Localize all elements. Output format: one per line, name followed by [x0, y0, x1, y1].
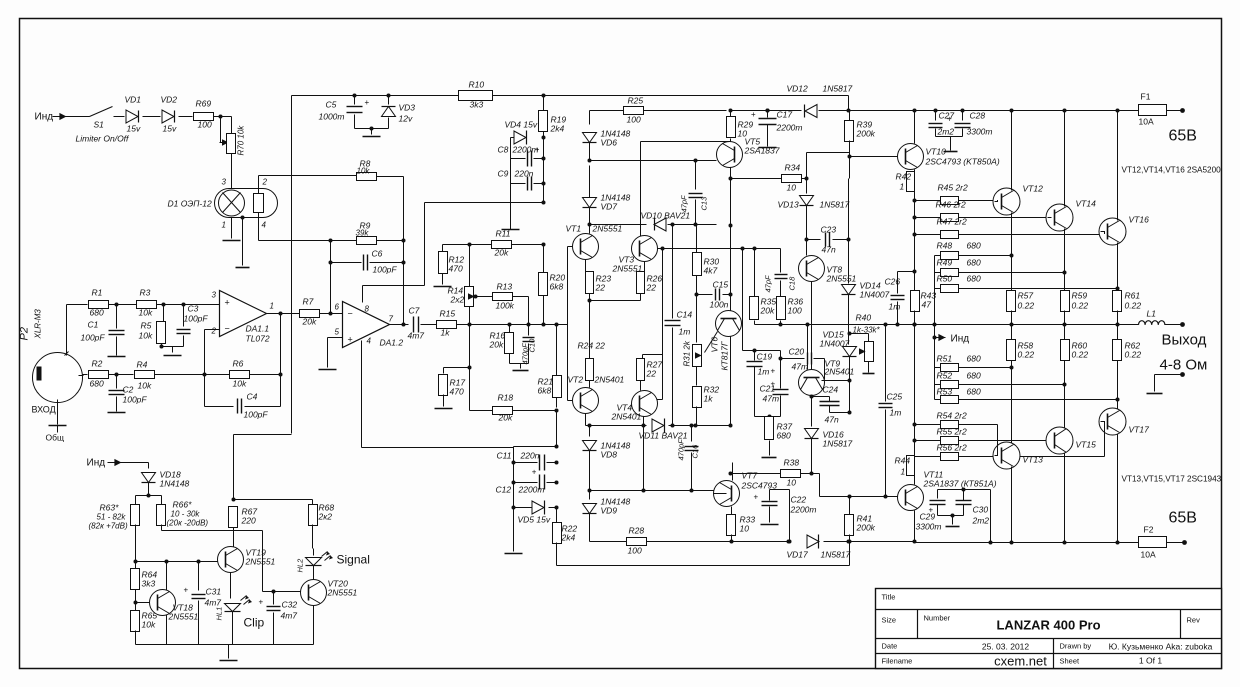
- svg-text:C26: C26: [885, 277, 901, 287]
- svg-text:47n: 47n: [822, 245, 836, 255]
- resistor R9 39k: [357, 237, 377, 245]
- wire VT5 base: [694, 159, 698, 163]
- svg-text:2: 2: [262, 178, 268, 187]
- wire VT7 base line: [590, 490, 714, 492]
- svg-text:−: −: [348, 309, 353, 319]
- svg-text:R25: R25: [628, 96, 644, 106]
- svg-text:C11: C11: [497, 451, 512, 461]
- svg-text:2200m: 2200m: [776, 123, 803, 133]
- wire output: [267, 313, 300, 315]
- svg-text:4: 4: [262, 221, 267, 230]
- svg-text:3300m: 3300m: [967, 127, 993, 137]
- svg-text:VT6: VT6: [710, 337, 720, 353]
- resistor R10 3k3: [459, 91, 493, 101]
- wire pin4 down: [258, 213, 260, 241]
- transistor VT4 2N5401: [632, 391, 658, 417]
- svg-text:DA1.2: DA1.2: [380, 338, 404, 348]
- svg-text:4k7: 4k7: [704, 266, 718, 276]
- wire collectors bottom bank: [1011, 467, 1013, 543]
- svg-text:1000m: 1000m: [319, 112, 345, 122]
- ground: [863, 373, 875, 375]
- svg-text:0.22: 0.22: [1125, 301, 1142, 311]
- svg-text:100: 100: [788, 306, 802, 316]
- svg-text:D1 ОЭП-12: D1 ОЭП-12: [168, 199, 212, 209]
- svg-text:0.22: 0.22: [1018, 350, 1035, 360]
- svg-text:Инд: Инд: [35, 112, 54, 123]
- wire main +supply rail: [292, 95, 544, 97]
- svg-text:20k: 20k: [760, 306, 775, 316]
- svg-text:1 Of 1: 1 Of 1: [1139, 656, 1162, 666]
- resistor R6 10k: [230, 371, 250, 379]
- wire output pin7: [390, 324, 409, 326]
- wire to lamp: [231, 154, 233, 189]
- svg-text:2N5401: 2N5401: [611, 412, 642, 422]
- svg-text:1k: 1k: [704, 394, 714, 404]
- svg-text:6k8: 6k8: [550, 282, 564, 292]
- wire VD15 node down: [849, 381, 851, 413]
- svg-text:C4: C4: [247, 392, 258, 402]
- svg-text:3k3: 3k3: [470, 100, 484, 110]
- svg-text:C9: C9: [498, 169, 509, 179]
- svg-text:cxem.net: cxem.net: [994, 654, 1047, 669]
- capacitor C25 1m: [885, 325, 887, 402]
- svg-text:1N4007: 1N4007: [820, 339, 850, 349]
- wire VT20 emitter: [313, 606, 315, 645]
- diode VD10 BAV21: [654, 218, 666, 231]
- svg-text:VD4 15v: VD4 15v: [505, 120, 538, 130]
- wire VT3 collector: [641, 141, 731, 143]
- svg-text:2N5401: 2N5401: [824, 367, 855, 377]
- svg-text:200k: 200k: [856, 523, 876, 533]
- svg-text:10k: 10k: [138, 381, 152, 391]
- capacitor C9 220n: [527, 177, 529, 191]
- svg-text:C31: C31: [206, 587, 222, 597]
- svg-text:1: 1: [270, 302, 274, 311]
- wire pin to R2: [83, 374, 88, 376]
- svg-text:R6: R6: [233, 359, 244, 369]
- svg-text:R49: R49: [937, 258, 953, 268]
- resistor R1 680: [89, 301, 109, 309]
- wire VT19 base line: [136, 561, 218, 563]
- svg-text:470: 470: [450, 387, 464, 397]
- diode VD16 1N5817: [811, 396, 813, 427]
- wire bottom indicator rail: [136, 644, 314, 646]
- capacitor C6 100pF: [330, 241, 332, 263]
- svg-text:C23: C23: [821, 225, 837, 235]
- transistor VT15: [1046, 427, 1073, 454]
- capacitor C5 1000m: [353, 94, 357, 98]
- svg-text:10: 10: [787, 183, 797, 193]
- svg-text:C28: C28: [970, 111, 986, 121]
- zener VD3 12v: [387, 94, 391, 98]
- transistor VT9 2N5401: [807, 325, 809, 370]
- wire VT4 emitter down: [643, 417, 645, 426]
- svg-text:10k: 10k: [142, 620, 156, 630]
- wire pin8 supply: [362, 286, 364, 303]
- svg-text:Rev: Rev: [1187, 616, 1201, 625]
- svg-text:0.22: 0.22: [1072, 350, 1089, 360]
- svg-text:HL2: HL2: [296, 558, 305, 573]
- wire R21 column: [556, 325, 558, 376]
- transistor VT7 2SC4793: [714, 481, 740, 507]
- resistor R69 100: [194, 113, 214, 121]
- svg-text:F1: F1: [1141, 92, 1151, 102]
- svg-text:2SC4793 (KT850A): 2SC4793 (KT850A): [925, 157, 1000, 167]
- resistor R26 22: [644, 262, 646, 272]
- svg-text:VT14: VT14: [1076, 199, 1097, 209]
- svg-text:VT15: VT15: [1076, 440, 1097, 450]
- svg-text:10A: 10A: [1141, 550, 1156, 560]
- svg-text:R51: R51: [937, 354, 953, 364]
- transistor VT18 2N5551: [150, 590, 176, 616]
- resistor R18 20k: [470, 410, 493, 412]
- svg-text:220: 220: [241, 516, 256, 526]
- capacitor C24 47n: [812, 396, 830, 398]
- svg-text:R34: R34: [785, 163, 801, 173]
- svg-text:R69: R69: [196, 99, 212, 109]
- svg-text:100pF: 100pF: [184, 314, 209, 324]
- svg-text:R55 2r2: R55 2r2: [937, 427, 968, 437]
- resistor R41 200k: [849, 497, 851, 515]
- switch S1: [90, 107, 113, 117]
- svg-text:R46 2r2: R46 2r2: [936, 200, 967, 210]
- resistor R38 10: [729, 472, 733, 476]
- svg-text:100n: 100n: [710, 300, 729, 310]
- svg-text:R1: R1: [92, 288, 103, 298]
- svg-text:2N5551: 2N5551: [245, 557, 276, 567]
- wire: [143, 116, 161, 118]
- capacitor C30 2m2: [956, 500, 972, 502]
- capacitor C32 4m7: [267, 606, 281, 608]
- ground: [759, 147, 777, 149]
- svg-text:1N5817: 1N5817: [820, 200, 850, 210]
- svg-text:R45 2r2: R45 2r2: [938, 183, 969, 193]
- resistor R35 20k: [754, 249, 756, 298]
- capacitor C14 1m: [665, 320, 681, 322]
- transistor VT20 2N5551: [301, 580, 327, 606]
- resistor R30 4k7: [696, 225, 698, 253]
- svg-text:680: 680: [967, 258, 981, 268]
- svg-text:0.22: 0.22: [1125, 350, 1142, 360]
- svg-text:R3: R3: [140, 288, 151, 298]
- emitter resistors R57 R59 R61 0.22: [1007, 291, 1016, 312]
- svg-text:220n: 220n: [514, 169, 534, 179]
- wire VT7 collector: [732, 463, 734, 481]
- svg-text:680: 680: [967, 371, 981, 381]
- svg-text:VD13: VD13: [778, 200, 800, 210]
- svg-text:6k8: 6k8: [538, 386, 552, 396]
- svg-text:680: 680: [967, 354, 981, 364]
- svg-text:100pF: 100pF: [81, 333, 106, 343]
- svg-text:22: 22: [595, 283, 606, 293]
- svg-text:3: 3: [212, 291, 217, 300]
- svg-text:12v: 12v: [399, 114, 413, 124]
- diode VD11 BAV21: [652, 419, 664, 432]
- resistor R63 51-82k: [136, 495, 149, 497]
- svg-text:R44: R44: [895, 456, 911, 466]
- wire VT10 base: [849, 111, 851, 121]
- zener VD2: [162, 110, 174, 123]
- svg-text:2k4: 2k4: [550, 124, 565, 134]
- svg-text:Signal: Signal: [337, 553, 370, 567]
- base jogs lower bank: [995, 425, 998, 456]
- svg-text:C18: C18: [788, 276, 797, 291]
- wire: [67, 116, 90, 118]
- resistor R36 100: [777, 297, 786, 320]
- svg-text:VD17: VD17: [787, 550, 809, 560]
- ground: [762, 457, 777, 459]
- wire VT11 collector to rail: [914, 511, 916, 542]
- svg-text:+: +: [259, 597, 264, 606]
- transistor VT16: [1099, 218, 1126, 245]
- svg-text:R18: R18: [498, 393, 514, 403]
- svg-text:2200m: 2200m: [512, 145, 539, 155]
- svg-text:R4: R4: [137, 360, 148, 370]
- capacitor C16 470pF: [691, 426, 693, 442]
- emitter resistors R58 R60 R62 0.22: [1011, 325, 1013, 340]
- svg-text:10: 10: [787, 478, 797, 488]
- svg-text:22: 22: [646, 283, 657, 293]
- svg-text:Title: Title: [882, 593, 896, 602]
- svg-text:S1: S1: [94, 120, 105, 130]
- ground: [371, 129, 373, 135]
- opto element D1 ОЭП-12: [215, 189, 278, 218]
- ground: [435, 408, 453, 410]
- wire: [403, 177, 405, 325]
- svg-text:R61: R61: [1125, 291, 1141, 301]
- svg-text:2: 2: [211, 327, 217, 336]
- wire VT18 emitter: [166, 615, 168, 645]
- svg-text:2m2: 2m2: [937, 127, 955, 137]
- ground: [108, 412, 126, 414]
- svg-text:C5: C5: [326, 100, 337, 110]
- svg-text:C24: C24: [823, 385, 839, 395]
- wire: [179, 116, 193, 118]
- svg-text:Drawn by: Drawn by: [1060, 642, 1092, 651]
- svg-text:1: 1: [900, 182, 905, 192]
- wire bottom rail right: [915, 542, 1139, 544]
- svg-text:2x2: 2x2: [450, 295, 465, 305]
- potentiometer R70 10k: [231, 117, 233, 134]
- svg-text:VD7: VD7: [601, 202, 618, 212]
- resistor R43 47: [914, 235, 916, 291]
- svg-text:+: +: [365, 98, 370, 107]
- svg-text:ВХОД: ВХОД: [32, 405, 56, 415]
- node Инд output sense: [934, 289, 936, 325]
- capacitor C10 470pF: [528, 325, 530, 336]
- diode VD11 BAV21 line: [586, 425, 647, 427]
- svg-text:100pF: 100pF: [373, 265, 398, 275]
- transistor VT1 2N5551: [573, 234, 599, 260]
- diode VD18 1N4148: [148, 463, 150, 469]
- svg-text:680: 680: [967, 241, 981, 251]
- svg-text:R24 22: R24 22: [578, 341, 606, 351]
- wire bottom main rail: [732, 541, 789, 543]
- svg-text:C19: C19: [757, 352, 773, 362]
- resistor R12 470: [442, 245, 444, 252]
- wire VT9 emitter: [811, 396, 813, 397]
- svg-text:22: 22: [646, 369, 657, 379]
- svg-text:470: 470: [449, 264, 463, 274]
- capacitor C17 2200m: [766, 109, 770, 113]
- svg-text:10k: 10k: [139, 308, 153, 318]
- zener VD4 15v: [514, 131, 526, 144]
- svg-text:1: 1: [901, 467, 906, 477]
- resistor R68 2k2: [234, 499, 313, 501]
- capacitor C23 47n: [807, 239, 821, 241]
- svg-text:680: 680: [90, 379, 104, 389]
- zener VD5 15v: [555, 506, 559, 510]
- resistor R17 470: [444, 367, 470, 369]
- capacitor C29 3300m: [937, 490, 939, 499]
- svg-text:C13: C13: [700, 196, 709, 211]
- wire base tie VT1-VT2: [567, 247, 569, 401]
- resistor R67 220: [233, 435, 235, 500]
- resistor R33 10: [731, 507, 733, 515]
- transistor VT17: [1099, 408, 1126, 435]
- transistor VT6 КТ817Г: [716, 311, 742, 337]
- svg-text:TL072: TL072: [246, 334, 270, 344]
- svg-text:R57: R57: [1018, 291, 1034, 301]
- wire emitter columns top bank: [1011, 213, 1013, 291]
- ground: [513, 370, 529, 372]
- svg-text:10k: 10k: [233, 379, 247, 389]
- wire C30 leg to rail: [964, 489, 991, 491]
- wire R39 column lower: [848, 179, 850, 240]
- svg-text:25. 03. 2012: 25. 03. 2012: [982, 642, 1030, 652]
- wire: [291, 96, 293, 434]
- svg-text:1N4148: 1N4148: [160, 479, 190, 489]
- svg-text:Ю. Кузьменко Aka: zuboka: Ю. Кузьменко Aka: zuboka: [1109, 642, 1213, 652]
- svg-text:R63*: R63*: [100, 503, 120, 513]
- svg-text:C1: C1: [88, 320, 99, 330]
- svg-text:220n: 220n: [520, 451, 540, 461]
- svg-text:Date: Date: [882, 642, 898, 651]
- svg-text:R13: R13: [497, 282, 513, 292]
- resistor R29 10: [730, 111, 732, 117]
- svg-text:VD11 BAV21: VD11 BAV21: [639, 431, 688, 441]
- svg-text:VD2: VD2: [161, 95, 178, 105]
- svg-text:R42: R42: [896, 172, 912, 182]
- svg-text:R50: R50: [937, 274, 953, 284]
- svg-text:1k: 1k: [441, 328, 451, 338]
- svg-text:10: 10: [740, 524, 750, 534]
- svg-text:+: +: [771, 367, 776, 376]
- svg-text:0.22: 0.22: [1072, 301, 1089, 311]
- svg-text:47: 47: [922, 300, 932, 310]
- svg-text:2N5551: 2N5551: [826, 274, 857, 284]
- svg-text:DA1.1: DA1.1: [246, 324, 270, 334]
- transistor VT2 2N5401: [573, 388, 599, 414]
- resistor R2 680: [89, 371, 109, 379]
- svg-text:10: 10: [738, 129, 748, 139]
- diode VD15 1N4007: [843, 347, 857, 357]
- capacitor C11 220n: [555, 461, 559, 465]
- svg-text:Filename: Filename: [882, 657, 913, 666]
- wire collectors up: [1011, 111, 1013, 191]
- op-amp DA1.2: [343, 302, 390, 348]
- capacitor C26 1m: [898, 271, 915, 273]
- base jogs upper bank: [995, 200, 998, 202]
- svg-text:15v: 15v: [127, 124, 141, 134]
- svg-text:65В: 65В: [1169, 128, 1197, 145]
- wire VT2 emitter: [585, 414, 587, 426]
- svg-text:680: 680: [967, 274, 981, 284]
- svg-text:Limiter On/Off: Limiter On/Off: [76, 134, 131, 144]
- svg-text:VD6: VD6: [601, 138, 618, 148]
- svg-text:R2: R2: [92, 359, 103, 369]
- resistor R34 10: [782, 175, 802, 183]
- capacitor C8 2200m: [527, 151, 529, 167]
- svg-text:C32: C32: [282, 600, 298, 610]
- svg-text:1: 1: [222, 221, 226, 230]
- svg-text:47m: 47m: [763, 394, 780, 404]
- capacitor C20 47m: [779, 357, 783, 361]
- resistor R32 1k: [696, 367, 698, 386]
- wire C22 right leg: [789, 490, 791, 542]
- capacitor C19 1m: [754, 351, 756, 361]
- wire base line VT1: [589, 225, 591, 234]
- connector P2 XLR-M3: [33, 353, 83, 403]
- svg-text:R38: R38: [784, 458, 800, 468]
- svg-text:VT10: VT10: [926, 147, 947, 157]
- svg-text:2200m: 2200m: [518, 485, 545, 495]
- capacitor C13 47pF: [695, 161, 697, 190]
- diode VD14 1N4007: [842, 285, 856, 295]
- svg-text:4-8 Ом: 4-8 Ом: [1160, 357, 1208, 374]
- resistor R65 10k: [135, 603, 137, 611]
- svg-text:100pF: 100pF: [244, 410, 269, 420]
- resistor R13 100k: [474, 295, 478, 299]
- resistor R66 10-30k: [149, 495, 162, 497]
- svg-text:4m7: 4m7: [281, 611, 298, 621]
- wire C14 column: [672, 225, 674, 319]
- wire VT8 emitter to VT9: [811, 282, 813, 370]
- svg-text:2m2: 2m2: [972, 516, 990, 526]
- resistor R20 6k8: [539, 273, 548, 296]
- svg-text:1m: 1m: [890, 408, 902, 418]
- capacitor C21 47m: [780, 351, 782, 389]
- trimmer R14 2x2: [469, 245, 471, 288]
- svg-text:3300m: 3300m: [916, 522, 942, 532]
- svg-text:XLR-M3: XLR-M3: [34, 309, 43, 340]
- wire R38 to VT11 base: [812, 473, 820, 475]
- svg-text:3k3: 3k3: [142, 579, 156, 589]
- svg-text:51 - 82k: 51 - 82k: [97, 513, 127, 522]
- wire: [510, 138, 512, 230]
- svg-text:C14: C14: [677, 310, 693, 320]
- svg-text:6: 6: [335, 303, 340, 312]
- svg-text:15v: 15v: [163, 124, 177, 134]
- svg-text:1m: 1m: [679, 327, 691, 337]
- svg-text:R59: R59: [1072, 291, 1088, 301]
- svg-text:+: +: [771, 380, 776, 389]
- diode VD8 1N4148: [589, 426, 591, 437]
- wire VAS line: [470, 324, 568, 326]
- svg-text:20k: 20k: [489, 340, 504, 350]
- svg-text:Clip: Clip: [244, 616, 265, 630]
- transistor VT8 2N5551: [806, 240, 808, 256]
- transistor VT13 2SC1943: [993, 442, 1020, 469]
- wire base tie VT3-VT4: [661, 247, 665, 251]
- svg-text:(82к +7dB): (82к +7dB): [89, 522, 128, 531]
- svg-text:Инд: Инд: [87, 458, 106, 469]
- svg-text:4m7: 4m7: [408, 331, 425, 341]
- svg-text:470pF: 470pF: [677, 439, 686, 461]
- svg-text:+: +: [947, 114, 952, 123]
- capacitor C27 2m2: [935, 111, 937, 121]
- svg-text:1N4007: 1N4007: [860, 290, 890, 300]
